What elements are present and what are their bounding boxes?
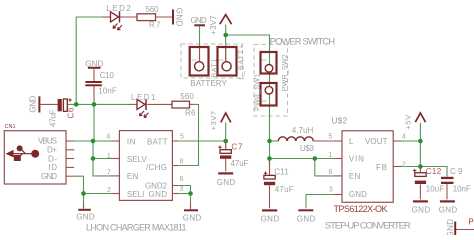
svg-text:LED2: LED2 xyxy=(106,4,131,13)
svg-text:3: 3 xyxy=(180,186,184,193)
svg-text:GND: GND xyxy=(446,219,455,235)
svg-text:/CHG: /CHG xyxy=(146,163,167,172)
svg-text:4: 4 xyxy=(106,134,110,141)
svg-text:PWR_SW1: PWR_SW1 xyxy=(255,74,262,111)
svg-text:LED1: LED1 xyxy=(131,93,156,102)
svg-text:2: 2 xyxy=(107,187,111,194)
svg-text:FB: FB xyxy=(376,163,387,172)
svg-text:GND: GND xyxy=(85,60,103,69)
svg-text:+3V7: +3V7 xyxy=(209,15,218,35)
svg-text:7: 7 xyxy=(107,169,111,176)
svg-text:10uF: 10uF xyxy=(426,184,445,193)
svg-text:U$2: U$2 xyxy=(332,117,348,126)
svg-text:SELV: SELV xyxy=(127,155,148,164)
svg-text:IN: IN xyxy=(127,137,136,146)
svg-text:GND: GND xyxy=(183,213,202,222)
svg-text:VIN: VIN xyxy=(349,155,364,164)
svg-text:1: 1 xyxy=(328,152,332,159)
svg-text:GND: GND xyxy=(297,214,316,223)
svg-text:3: 3 xyxy=(329,187,333,194)
svg-text:+5V: +5V xyxy=(404,115,413,130)
svg-text:GND: GND xyxy=(261,214,280,223)
svg-text:L: L xyxy=(349,137,354,146)
svg-text:6: 6 xyxy=(180,176,184,183)
svg-text:1: 1 xyxy=(219,59,225,62)
svg-text:GND: GND xyxy=(175,8,184,27)
svg-text:GND: GND xyxy=(217,178,236,187)
svg-text:+3V7: +3V7 xyxy=(209,111,218,131)
svg-text:GND: GND xyxy=(191,16,207,25)
svg-text:SELI: SELI xyxy=(127,190,144,199)
svg-text:8: 8 xyxy=(180,159,184,166)
svg-text:1: 1 xyxy=(262,100,268,103)
svg-text:1: 1 xyxy=(262,59,268,62)
svg-text:C10: C10 xyxy=(100,71,115,80)
svg-text:P: P xyxy=(468,218,473,227)
svg-text:47uF: 47uF xyxy=(231,159,249,168)
svg-text:560: 560 xyxy=(180,92,194,101)
svg-text:TPS6122X-OK: TPS6122X-OK xyxy=(334,204,388,214)
svg-text:D+: D+ xyxy=(47,146,57,155)
svg-text:BATTERY: BATTERY xyxy=(190,79,227,88)
svg-text:EN: EN xyxy=(127,172,139,181)
svg-text:C6: C6 xyxy=(66,107,75,119)
svg-text:560: 560 xyxy=(146,5,160,14)
svg-text:C7: C7 xyxy=(231,143,243,152)
svg-text:C12: C12 xyxy=(426,167,442,176)
svg-text:BATT: BATT xyxy=(147,137,168,146)
svg-text:1: 1 xyxy=(191,59,197,62)
svg-text:VBUS: VBUS xyxy=(38,137,57,146)
svg-text:GND: GND xyxy=(29,95,38,112)
svg-text:PWR_SW2: PWR_SW2 xyxy=(282,54,289,91)
svg-text:5: 5 xyxy=(328,133,332,140)
svg-text:C11: C11 xyxy=(274,167,289,176)
svg-text:4: 4 xyxy=(402,133,406,140)
svg-text:GND: GND xyxy=(349,190,367,199)
svg-text:GND: GND xyxy=(41,172,57,181)
svg-text:POWER SWITCH: POWER SWITCH xyxy=(270,36,336,47)
svg-text:EN: EN xyxy=(349,172,361,181)
svg-text:L_BATT+: L_BATT+ xyxy=(238,45,245,80)
svg-text:GND: GND xyxy=(76,212,95,221)
svg-text:6: 6 xyxy=(329,169,333,176)
svg-text:47uF: 47uF xyxy=(275,185,294,194)
svg-text:2: 2 xyxy=(402,161,406,168)
svg-text:STEP-UP CONVERTER: STEP-UP CONVERTER xyxy=(325,221,411,232)
svg-text:5: 5 xyxy=(180,134,184,141)
svg-text:VOUT: VOUT xyxy=(365,137,388,146)
svg-text:10nF: 10nF xyxy=(453,184,471,193)
svg-text:GND: GND xyxy=(412,205,431,214)
svg-text:BAT1: BAT1 xyxy=(211,59,218,78)
svg-text:1: 1 xyxy=(107,153,111,160)
svg-text:GND: GND xyxy=(439,205,458,214)
svg-text:R6: R6 xyxy=(185,109,196,118)
svg-text:GND: GND xyxy=(149,190,168,199)
svg-text:CN1: CN1 xyxy=(5,124,16,130)
svg-text:4.7uH: 4.7uH xyxy=(292,126,314,135)
svg-text:10nF: 10nF xyxy=(98,87,117,96)
svg-text:ID: ID xyxy=(49,163,58,172)
svg-text:47uF: 47uF xyxy=(49,109,58,127)
svg-text:LI-ION CHARGER MAX1811: LI-ION CHARGER MAX1811 xyxy=(86,223,187,233)
svg-text:D-: D- xyxy=(48,154,57,163)
svg-text:U$3: U$3 xyxy=(300,144,315,153)
